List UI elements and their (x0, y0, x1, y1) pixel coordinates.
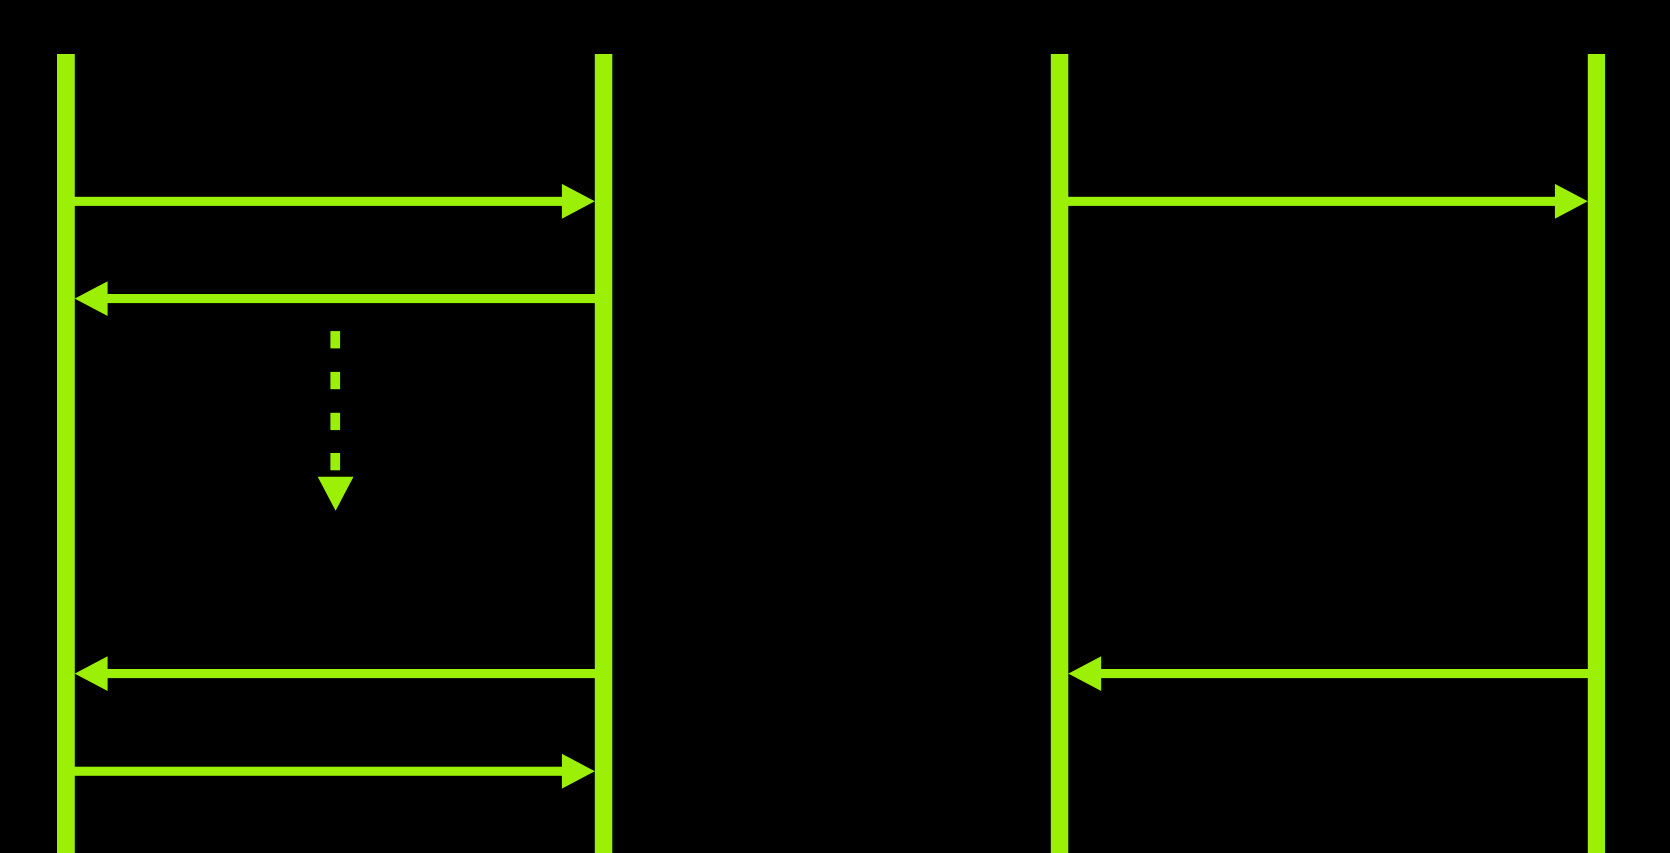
arrow M1 left pair rightward (74, 184, 595, 219)
lifeline L3 (1051, 54, 1069, 853)
lifeline L4 (1588, 54, 1605, 853)
arrow M4 left pair rightward lower (74, 754, 595, 789)
arrow R2 right pair leftward (1068, 656, 1605, 691)
arrow M2 left pair leftward (75, 281, 612, 316)
lifeline L2 (595, 54, 613, 853)
dashed self arrow vertical (318, 331, 354, 511)
arrow M3 left pair leftward lower (75, 656, 612, 691)
lifeline L1 (57, 54, 75, 853)
arrow R1 right pair rightward (1067, 184, 1588, 219)
